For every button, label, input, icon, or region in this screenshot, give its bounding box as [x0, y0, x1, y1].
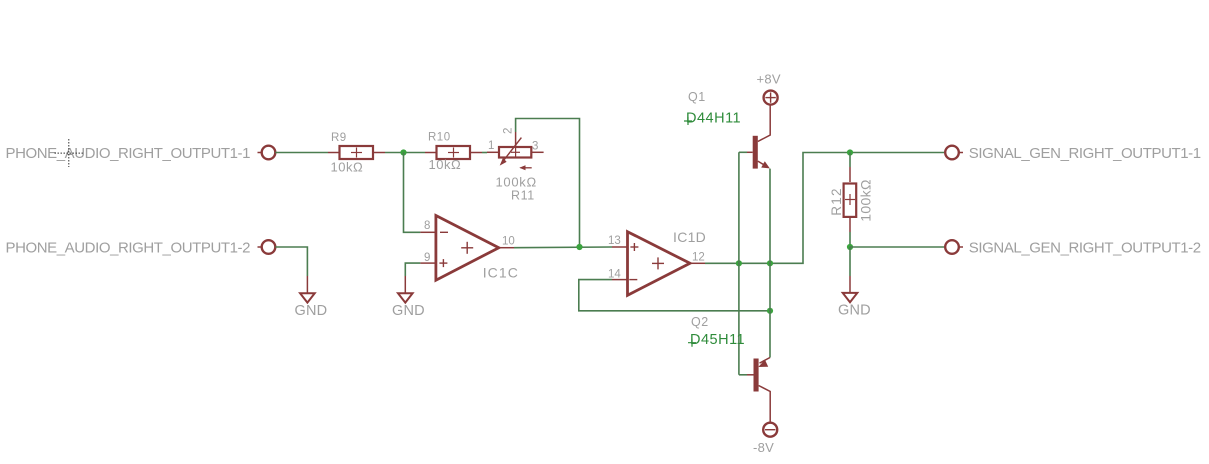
node SIGNAL_GEN_RIGHT_OUTPUT1-2 — [969, 240, 1201, 257]
svg-text:D45H11: D45H11 — [690, 332, 745, 348]
supply -8V — [753, 423, 777, 455]
svg-text:SIGNAL_GEN_RIGHT_OUTPUT1-1: SIGNAL_GEN_RIGHT_OUTPUT1-1 — [969, 145, 1201, 162]
svg-text:10: 10 — [502, 236, 515, 248]
junction output/base column — [736, 260, 742, 266]
op-amp IC1D — [608, 229, 706, 295]
wire output 2 rail — [850, 246, 944, 248]
svg-text:-8V: -8V — [753, 440, 774, 455]
ground GND (IC1C pin9) — [392, 276, 425, 319]
terminal pad PHONE_AUDIO_RIGHT_OUTPUT1-1 — [258, 146, 276, 160]
svg-text:9: 9 — [424, 252, 430, 264]
cursor crosshair — [55, 139, 84, 167]
resistor R12 — [829, 167, 874, 232]
op-amp IC1C — [420, 216, 519, 281]
transistor Q1 — [684, 90, 770, 169]
resistor R10 — [425, 132, 482, 173]
svg-text:GND: GND — [838, 303, 871, 319]
wire R12 top — [849, 153, 851, 168]
junction R9/R10/IC1C-pin8 — [400, 149, 406, 155]
svg-text:PHONE_AUDIO_RIGHT_OUTPUT1-1: PHONE_AUDIO_RIGHT_OUTPUT1-1 — [6, 145, 251, 162]
junction output rail / R12 top — [847, 149, 853, 155]
svg-text:2: 2 — [503, 128, 515, 134]
terminal pad SIGNAL_GEN_RIGHT_OUTPUT1-2 — [945, 240, 963, 254]
svg-text:R11: R11 — [511, 189, 535, 203]
ground GND (input 2) — [295, 276, 328, 319]
resistor R9 — [328, 132, 385, 175]
wire junction column down to IC1C pin 8 — [404, 153, 421, 233]
svg-text:Q1: Q1 — [688, 90, 706, 104]
svg-text:R9: R9 — [331, 132, 347, 144]
wire IC1D feedback pin14 — [579, 280, 770, 311]
svg-text:GND: GND — [295, 303, 328, 319]
svg-text:IC1C: IC1C — [483, 265, 519, 281]
svg-text:GND: GND — [392, 303, 425, 319]
svg-text:8: 8 — [424, 220, 430, 232]
svg-text:3: 3 — [532, 141, 538, 153]
wire R12 bottom — [849, 232, 851, 247]
svg-text:PHONE_AUDIO_RIGHT_OUTPUT1-2: PHONE_AUDIO_RIGHT_OUTPUT1-2 — [6, 240, 251, 257]
wire T2 to GND — [275, 247, 307, 276]
wire R12 junction to GND — [849, 247, 851, 276]
wire base column — [738, 152, 740, 374]
svg-text:IC1D: IC1D — [673, 229, 706, 245]
node SIGNAL_GEN_RIGHT_OUTPUT1-1 — [969, 145, 1201, 162]
svg-text:10kΩ: 10kΩ — [429, 157, 462, 172]
svg-text:12: 12 — [692, 252, 705, 264]
wire Q1 base — [739, 151, 747, 153]
node PHONE_AUDIO_RIGHT_OUTPUT1-2 — [6, 240, 251, 257]
terminal pad SIGNAL_GEN_RIGHT_OUTPUT1-1 — [945, 146, 963, 160]
svg-text:R10: R10 — [428, 132, 451, 144]
svg-text:14: 14 — [608, 269, 621, 281]
svg-text:Q2: Q2 — [691, 315, 709, 329]
ground GND (R12) — [838, 276, 871, 319]
svg-text:+8V: +8V — [757, 72, 781, 87]
junction R12 bottom / output 2 — [847, 244, 853, 250]
svg-text:100kΩ: 100kΩ — [496, 175, 537, 190]
wire R9 to R10 — [385, 152, 425, 154]
svg-text:R12: R12 — [829, 187, 844, 216]
wire IC1C pin9 to GND — [405, 263, 420, 276]
node PHONE_AUDIO_RIGHT_OUTPUT1-1 — [6, 145, 251, 162]
wire IC1C output to IC1D pin13 — [514, 246, 612, 249]
junction output/emitter column — [767, 260, 773, 266]
svg-text:10kΩ: 10kΩ — [331, 160, 364, 175]
supply +8V — [757, 72, 781, 105]
svg-text:1: 1 — [488, 140, 494, 152]
wire IC1D output rail — [705, 153, 944, 264]
svg-text:100kΩ: 100kΩ — [858, 179, 874, 222]
wire R10 to R11 — [482, 152, 487, 154]
wire emitter column — [769, 169, 771, 358]
terminal pad PHONE_AUDIO_RIGHT_OUTPUT1-2 — [258, 240, 276, 254]
svg-text:SIGNAL_GEN_RIGHT_OUTPUT1-2: SIGNAL_GEN_RIGHT_OUTPUT1-2 — [969, 240, 1201, 257]
junction IC1C output / wiper — [576, 244, 582, 250]
svg-text:13: 13 — [608, 235, 621, 247]
wire T1 to R9 — [275, 152, 328, 154]
wire Q2 base — [739, 374, 747, 376]
svg-text:D44H11: D44H11 — [686, 110, 741, 126]
potentiometer R11 — [487, 128, 544, 203]
wire R11 wiper to IC1C output node — [516, 119, 580, 248]
junction feedback/emitter column — [767, 308, 773, 314]
transistor Q2 — [688, 315, 770, 423]
